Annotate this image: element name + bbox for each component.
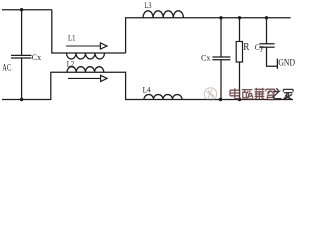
svg-text:Cx: Cx bbox=[201, 53, 211, 63]
svg-text:AC: AC bbox=[2, 62, 11, 72]
svg-text:L4: L4 bbox=[143, 86, 151, 95]
svg-text:L2: L2 bbox=[67, 60, 75, 69]
svg-text:GND: GND bbox=[278, 57, 295, 67]
svg-text:R: R bbox=[243, 42, 249, 53]
svg-text:Cx: Cx bbox=[32, 52, 42, 62]
svg-text:L1: L1 bbox=[68, 34, 75, 43]
svg-text:Cy: Cy bbox=[255, 42, 264, 52]
svg-text:L3: L3 bbox=[145, 1, 152, 10]
